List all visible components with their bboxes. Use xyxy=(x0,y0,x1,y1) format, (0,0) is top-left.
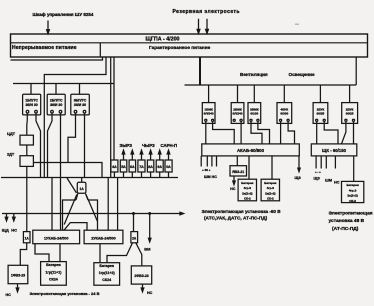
wire: funnel 1БП/ТС right terminal to x40.5 xyxy=(36,113,41,178)
wire: arrow down to ЩД xyxy=(5,214,8,221)
svg-text:6/100: 6/100 xyxy=(250,112,258,116)
wire: diagonal 1А to lower-left xyxy=(64,195,77,225)
svg-text:ЧЫРЗ: ЧЫРЗ xyxy=(142,143,155,148)
wire: ЩК tap to battery 3 xyxy=(353,156,355,182)
battery Батарея 4гр.3 2х(2+2) СК-2 (no.3) xyxy=(342,181,364,202)
svg-text:+ - +: + - + xyxy=(315,170,321,174)
svg-text:НС: НС xyxy=(230,187,236,191)
wire: left arrow from Резервная электросеть into bus xyxy=(197,19,200,34)
wire: АКАБ tap to ЯВЗ-21 xyxy=(236,156,238,166)
wire: 1ВМК right terminal elbow to АКАБ xyxy=(213,122,235,144)
svg-text:ЩЗ: ЩЗ xyxy=(295,176,302,180)
wire: arrow down to ВМ xyxy=(148,214,151,243)
wire: arrow down from ЯВЗ-21 to НС xyxy=(233,176,235,185)
wire: 2ВУК left terminal diagonal to ЩК xyxy=(342,122,346,144)
svg-text:ШМ НС: ШМ НС xyxy=(204,175,217,179)
filter 2ФВЗ-23 xyxy=(131,266,151,284)
svg-text:2ФВЗ-23: 2ФВЗ-23 xyxy=(134,274,148,278)
rectifier 1ВУК 90/25 xyxy=(313,103,328,124)
wire: elbow line from bus x106 down and left to x44.3 xyxy=(44,58,106,178)
svg-text:4А: 4А xyxy=(112,165,117,169)
svg-text:Батарея: Батарея xyxy=(264,181,276,185)
bus: divider between top row and cells xyxy=(11,42,368,44)
wire: feeder drop to 3ВМК xyxy=(253,85,255,103)
svg-text:Батарея: Батарея xyxy=(346,183,358,187)
wire: left feeder line y83.5 xyxy=(13,83,114,85)
junction dot on y213.5 at x133.5 xyxy=(133,213,135,215)
wire: bus drop pair right line x114 to fuse 4А xyxy=(113,58,115,161)
wire: feeder drop to 2ВУК xyxy=(349,85,351,103)
wire: right feeder line y85 xyxy=(185,84,357,86)
fuse 10А xyxy=(165,160,172,172)
wire: arrow from ШУ 8254 into bus xyxy=(47,21,50,34)
wire: arrow down from 2ФВЗ-23 to НС xyxy=(141,284,144,292)
battery Батарея 1гр(11+1) СК24 xyxy=(41,262,67,286)
wire: funnel 2БП/ТС left terminal to x47.5 xyxy=(48,113,53,178)
fuse 7А xyxy=(138,160,145,172)
svg-text:ШМ: ШМ xyxy=(325,178,332,182)
svg-text:1УКАБ-24/500: 1УКАБ-24/500 xyxy=(44,236,68,240)
converter 3БП/ТС 36/И 30 xyxy=(71,94,90,115)
wire: 2БП/ТС right terminal long drop to 1УКАБ xyxy=(60,113,62,230)
wire: arrow down to НС left xyxy=(13,214,16,221)
svg-text:6/300: 6/300 xyxy=(280,112,288,116)
wire: 1ВУК right terminal elbow to ЩК xyxy=(324,122,338,144)
svg-text:ЩД: ЩД xyxy=(2,227,9,232)
svg-text:4гр.З: 4гр.З xyxy=(349,188,357,192)
svg-text:СК24: СК24 xyxy=(102,278,111,282)
svg-text:3БП/ТС: 3БП/ТС xyxy=(74,99,87,103)
wire: 3БП/ТС right terminal drop xyxy=(84,113,86,178)
rectifier 1ВМК 6Л/240 xyxy=(202,103,215,124)
svg-text:6Л/240: 6Л/240 xyxy=(204,112,214,116)
converter 1БП/ТС 36/И 30 xyxy=(23,94,41,115)
wire: 4ВУК left terminal to АКАБ xyxy=(280,122,282,144)
rectifier 2ВМК 6Л/240 xyxy=(231,103,244,124)
svg-text:Гарантированное питание: Гарантированное питание xyxy=(149,45,211,50)
rectifier 2УКАБ-24/500 xyxy=(84,230,123,244)
wire: tap down to fuse 2А xyxy=(133,214,135,232)
svg-text:1А: 1А xyxy=(25,236,30,240)
svg-text:Батарея: Батарея xyxy=(99,264,114,268)
svg-text:Вентиляция: Вентиляция xyxy=(240,72,268,77)
wire: 2ВМК right terminal to АКАБ xyxy=(240,122,242,144)
wire: arrow up from 8А to ЧЫРЗ xyxy=(149,150,152,160)
svg-text:1БП/ТС: 1БП/ТС xyxy=(25,99,38,103)
svg-text:Электропитающая установка - 24: Электропитающая установка - 24 В xyxy=(30,291,100,296)
svg-text:ВМ: ВМ xyxy=(144,247,151,252)
wire: АКАБ output stubs xyxy=(201,156,216,167)
wire: fuse row stubs to distribution line xyxy=(114,172,168,178)
relay box ЦДТ xyxy=(20,135,33,145)
wire: arrow up from 9А to САРН-П xyxy=(158,150,161,160)
wire: feeder drop to 4ВУК xyxy=(283,85,285,103)
svg-text:(АТ-ПС-ПД): (АТ-ПС-ПД) xyxy=(332,226,359,232)
wire: feeder drop to 2БП/ТС xyxy=(55,84,57,95)
svg-text:2ДТ: 2ДТ xyxy=(7,151,15,156)
svg-text:2х(2+2): 2х(2+2) xyxy=(242,191,252,195)
wire: 2А diagonal to 2ФВЗ-23 xyxy=(136,243,142,266)
svg-text:1ФВЗ-23: 1ФВЗ-23 xyxy=(11,274,25,278)
svg-text:НС: НС xyxy=(147,291,153,295)
wire: feeder drop to 1ВУК xyxy=(319,85,321,103)
fuse 5А xyxy=(120,160,127,172)
junction dot on y213.5 at x149.7 xyxy=(149,213,151,215)
rectifier 4ВУК 6/300 xyxy=(277,103,292,124)
wire: arrow up from 7А to ЧЫРЗ xyxy=(140,150,143,160)
wire: АКАБ arrow to ЩЗ xyxy=(298,156,300,172)
distribution board АКАБ-60/800 xyxy=(202,144,299,156)
svg-text:САРН-П: САРН-П xyxy=(161,143,178,148)
svg-text:6Л/240: 6Л/240 xyxy=(233,112,243,116)
fuse 1А (middle) xyxy=(77,182,86,193)
rectifier 1УКАБ-24/500 xyxy=(33,230,80,244)
svg-text:2УКАБ-24/500: 2УКАБ-24/500 xyxy=(91,236,115,240)
fuse 9А xyxy=(156,160,163,172)
svg-text:5А: 5А xyxy=(121,165,126,169)
relay box 2ДТ xyxy=(20,156,33,167)
svg-text:ЩЗ: ЩЗ xyxy=(314,176,321,180)
svg-text:ЗЫРЗ: ЗЫРЗ xyxy=(120,143,133,148)
svg-text:ЩГПА - 4/200: ЩГПА - 4/200 xyxy=(146,36,180,42)
wire: 1ВМК left terminal to АКАБ xyxy=(205,122,207,144)
wire: arrow up from 10А to САРН-П xyxy=(167,150,170,160)
svg-text:1гр(11+1): 1гр(11+1) xyxy=(45,270,62,274)
svg-text:Непрерываемое питание: Непрерываемое питание xyxy=(12,45,77,51)
svg-text:2БП/ТС: 2БП/ТС xyxy=(50,99,63,103)
svg-text:4гр.З: 4гр.З xyxy=(244,186,252,190)
wire: feeder drop to 1ВМК xyxy=(208,85,210,103)
wire: arrow down from 1ФВЗ-23 to НС xyxy=(16,284,19,292)
svg-text:(АТС,УАК, ДАТС, АТ-ПС-ПД): (АТС,УАК, ДАТС, АТ-ПС-ПД) xyxy=(204,216,268,221)
wire: thick drop from bus to right feeder xyxy=(199,58,201,86)
wire: 2ДТ down to fuse 1А xyxy=(26,166,28,231)
filter ЯВЗ-21 xyxy=(230,166,247,176)
distribution board ЩК-60/150 xyxy=(311,144,357,156)
wire: 3ВМК right terminal to АКАБ xyxy=(258,122,270,144)
svg-text:Освещение: Освещение xyxy=(289,72,315,77)
wire: diagonal from distribution line to 1А xyxy=(67,178,77,193)
wire: feeder drop to 1БП/ТС xyxy=(30,84,32,95)
rectifier 3ВМК 6/100 xyxy=(248,103,261,124)
filter 1ФВЗ-23 xyxy=(8,265,28,283)
bus ЩГПА-4/200 outer box xyxy=(11,34,368,57)
battery Батарея 4гр.3 2х(2+2) СК-2 (no.1) xyxy=(238,179,256,201)
wire: 4ВУК right terminal elbow to АКАБ xyxy=(288,122,294,144)
fuse 2А (battery row) xyxy=(131,232,138,243)
rectifier 2ВУК 90/25 xyxy=(342,103,358,124)
wire: 2УКАБ tap to Батарея 2 xyxy=(99,244,101,263)
svg-text:Электропитающая установка -60: Электропитающая установка -60 В xyxy=(202,209,282,214)
svg-text:ЩК - 60/150: ЩК - 60/150 xyxy=(322,148,347,153)
svg-text:Шкаф управления ШУ 8254: Шкаф управления ШУ 8254 xyxy=(33,11,94,17)
svg-text:+ 60 +: + 60 + xyxy=(202,168,211,172)
wire: notch from 1А middle box to frame xyxy=(76,194,88,200)
wire: distribution line y177.5 xyxy=(1,177,178,179)
fuse 8А xyxy=(147,160,153,172)
converter 2БП/ТС 36/И 30 xyxy=(47,94,65,115)
wire: uninterruptible bus tap line y60 xyxy=(11,57,103,60)
svg-text:НС: НС xyxy=(11,227,17,232)
svg-text:Батарея: Батарея xyxy=(241,181,253,185)
svg-text:8А: 8А xyxy=(148,165,153,169)
svg-text:НС: НС xyxy=(6,293,12,297)
wire: 1УКАБ elbow to Батарея 1 xyxy=(35,244,49,262)
wire: tap to 1А middle xyxy=(81,178,83,183)
fuse 1А (battery row) xyxy=(23,232,30,243)
svg-text:9А: 9А xyxy=(157,165,162,169)
svg-text:36/И 30: 36/И 30 xyxy=(25,103,37,107)
svg-text:Электропитающая: Электропитающая xyxy=(329,211,373,217)
wire: 1ВУК left terminal to ЩК xyxy=(316,122,318,144)
wire: arrow up from 5А to ЗЫРЗ xyxy=(122,150,125,160)
svg-text:2х(2+2): 2х(2+2) xyxy=(347,194,357,198)
svg-text:Батарея: Батарея xyxy=(46,263,61,267)
wire: 1БП/ТС left terminal down to ЦДТ xyxy=(26,113,29,135)
svg-text:1А: 1А xyxy=(80,187,85,191)
wire: vertical x108.2 to 2УКАБ xyxy=(107,178,109,231)
svg-text:90/25: 90/25 xyxy=(317,112,325,116)
fuse 6А xyxy=(129,160,136,172)
wire: ЦДТ to 2ДТ xyxy=(26,145,28,156)
bus: divider between Непрерываемое and Гарантированное cells xyxy=(99,43,101,57)
battery Батарея 1гр(11+2) СК24 xyxy=(94,263,120,286)
wire: ЩК output stubs xyxy=(316,156,335,169)
fuse 4А xyxy=(111,160,118,172)
wire: feeder riser to bus at x356.2 xyxy=(355,58,357,86)
wire: 1А down-elbow to 1ФВЗ-23 xyxy=(20,243,26,265)
wire: bus drop pair left line x110.7 xyxy=(110,58,112,178)
wire: feeder drop to 2ВМК xyxy=(237,85,239,103)
svg-text:6А: 6А xyxy=(130,165,135,169)
svg-text:АКАБ-60/800: АКАБ-60/800 xyxy=(237,148,265,153)
wire: АКАБ tap to battery 1 xyxy=(248,156,250,179)
wire: 3БП/ТС left terminal elbow via y137 and y162.8 xyxy=(68,113,76,163)
wire: 2А diagonal to y255.5 link xyxy=(107,243,133,263)
wire: 2ВУК right terminal to ЩК xyxy=(353,122,355,144)
wire: big junction frame left side x62.5 xyxy=(63,200,77,230)
wire: trapezoid chute above 1УКАБ xyxy=(64,223,87,231)
svg-text:4гр.З: 4гр.З xyxy=(267,186,275,190)
wire: diagonal 1А to lower-right xyxy=(86,195,97,222)
svg-text:36/И 30: 36/И 30 xyxy=(74,103,86,107)
svg-text:СК-2: СК-2 xyxy=(349,199,356,203)
wire: right arrow from Резервная электросеть into bus xyxy=(206,19,209,34)
svg-text:СК24: СК24 xyxy=(49,278,58,282)
svg-text:90/25: 90/25 xyxy=(346,112,354,116)
wire: vertical x52 from y177.5 to 1УКАБ xyxy=(51,178,53,231)
wire: АКАБ tap to battery 2 xyxy=(271,156,273,179)
wire: link line y162.8 from 2ДТ to x102 down to distribution line xyxy=(33,163,102,178)
wire: feeder drop to 3БП/ТС xyxy=(79,84,81,95)
wire: vertical x117.6 to 2УКАБ xyxy=(117,178,119,231)
svg-text:НС: НС xyxy=(334,181,340,185)
svg-text:7А: 7А xyxy=(139,165,144,169)
wire: big junction frame right side x100 xyxy=(88,200,98,230)
wire: 1УКАБ right tap to Батарея 1 xyxy=(59,244,61,262)
svg-text:ЯВЗ-21: ЯВЗ-21 xyxy=(232,170,244,174)
svg-text:Резервная электросеть: Резервная электросеть xyxy=(173,9,240,15)
svg-text:СК-2: СК-2 xyxy=(244,197,251,201)
wire: arrow up from 6А to ЗЫРЗ xyxy=(131,150,134,160)
wire: 3ВМК left terminal elbow to АКАБ xyxy=(251,122,262,144)
svg-text:36/И 30: 36/И 30 xyxy=(50,103,62,107)
battery Батарея 4гр.3 2х(2+2) СК-2 (no.2) xyxy=(261,179,279,201)
svg-text:СК-2: СК-2 xyxy=(267,197,274,201)
svg-text:0А: 0А xyxy=(166,165,171,169)
svg-text:установка 48 В: установка 48 В xyxy=(329,218,365,224)
svg-text:2х(2+2): 2х(2+2) xyxy=(265,191,275,195)
svg-text:2А: 2А xyxy=(132,236,137,240)
wire: distribution line y213.5 with right arrow xyxy=(2,212,184,215)
svg-text:1гр(11+2): 1гр(11+2) xyxy=(99,271,116,275)
svg-text:ЦДТ: ЦДТ xyxy=(7,131,16,136)
